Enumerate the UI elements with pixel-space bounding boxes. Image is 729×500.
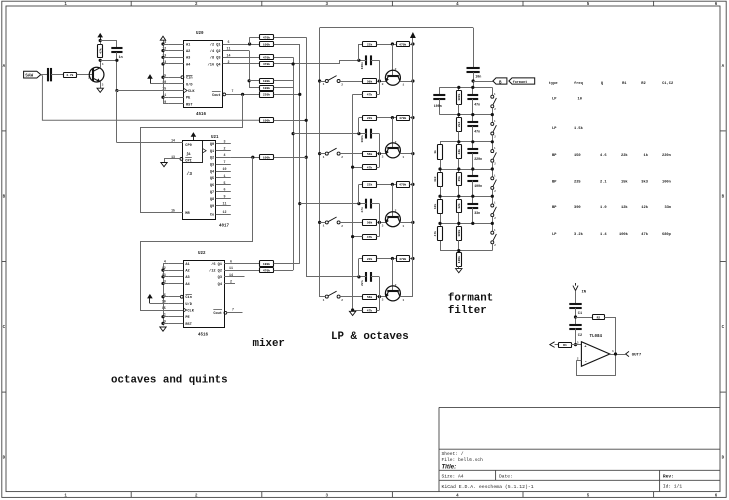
svg-text:A2: A2 <box>186 50 190 54</box>
svg-text:formant: formant <box>513 80 528 85</box>
svg-text:Cout: Cout <box>213 312 222 316</box>
wire <box>359 276 367 278</box>
junction <box>318 221 321 224</box>
wire <box>376 310 379 312</box>
svg-text:100n: 100n <box>434 104 442 108</box>
svg-text:100k: 100k <box>263 155 270 159</box>
wire base <box>392 184 394 217</box>
svg-text:C2: C2 <box>578 334 582 338</box>
switch SW4 <box>323 291 344 302</box>
svg-text:7: 7 <box>224 160 226 164</box>
svg-text:Id: 1/1: Id: 1/1 <box>663 484 683 490</box>
resistor 56k stage2 <box>363 152 377 157</box>
svg-text:1.4: 1.4 <box>600 233 607 237</box>
wire <box>163 316 168 318</box>
svg-text:/4 Q2: /4 Q2 <box>210 49 221 54</box>
svg-text:A3: A3 <box>185 276 189 280</box>
junction <box>318 152 321 155</box>
svg-text:12k: 12k <box>641 205 648 210</box>
node base stage1 <box>378 79 381 82</box>
wire feedback right <box>615 317 617 376</box>
power +V arrow U21 <box>193 136 195 140</box>
ground bus LP stages <box>352 94 354 310</box>
svg-text:15: 15 <box>171 208 175 212</box>
svg-text:10n: 10n <box>475 76 481 80</box>
pin 13 CPI U21 <box>169 155 183 160</box>
wire <box>274 37 307 39</box>
capacitor 10n <box>467 67 480 69</box>
pin 11 Q2 U22 <box>209 266 233 273</box>
resistor 100k U21 Q2 <box>260 155 274 160</box>
wire <box>274 87 294 89</box>
junction <box>292 62 295 65</box>
resistor 47k stage1 <box>363 92 377 98</box>
svg-text:A3: A3 <box>186 57 190 61</box>
wire <box>274 44 300 46</box>
svg-text:Q3: Q3 <box>218 276 222 280</box>
svg-text:Q5: Q5 <box>210 177 214 181</box>
pin 5 Cin U22 <box>164 293 192 300</box>
resistor 2k2 formant chain <box>457 115 462 142</box>
svg-text:22k: 22k <box>367 116 373 120</box>
svg-text:2: 2 <box>230 279 232 283</box>
wire to U21 CP0 <box>117 142 183 144</box>
svg-text:4516: 4516 <box>198 333 209 337</box>
svg-text:CPI: CPI <box>185 159 191 163</box>
capacitor 100n formant left <box>433 87 445 114</box>
node +in <box>574 343 577 346</box>
capacitor 22n stage4 <box>365 272 367 282</box>
wire stage3 feed <box>300 203 359 205</box>
capacitor 100n stage1 <box>365 55 367 65</box>
wire <box>100 41 102 45</box>
wire <box>575 291 577 305</box>
wire <box>555 344 559 346</box>
node C1/C2 <box>574 315 577 318</box>
wire <box>41 75 259 121</box>
svg-text:LP & octaves: LP & octaves <box>331 331 409 343</box>
wire -in <box>576 360 581 362</box>
wire <box>353 236 363 238</box>
capacitor C-in <box>47 68 49 81</box>
node collector stage4 <box>391 257 394 260</box>
svg-text:2: 2 <box>395 210 397 213</box>
wire <box>473 81 493 83</box>
wire <box>274 270 294 272</box>
svg-text:Q6: Q6 <box>210 184 214 188</box>
wire <box>100 40 117 42</box>
junction switch column <box>491 140 494 143</box>
wire <box>116 52 118 90</box>
junction <box>161 315 164 318</box>
transistor stage2 <box>382 141 405 159</box>
pin 3 A4 U20 <box>164 60 191 67</box>
pin 7 Cout U22 <box>213 307 242 316</box>
svg-text:LP: LP <box>552 127 557 131</box>
svg-text:Q1: Q1 <box>210 150 214 154</box>
transistor stage4 <box>382 284 405 302</box>
svg-text:470k: 470k <box>263 56 270 60</box>
wire <box>163 44 169 46</box>
resistor 100k formant bottom <box>457 251 462 269</box>
node cap stage3 <box>357 202 360 205</box>
wire node 4 <box>440 169 492 171</box>
svg-text:4516: 4516 <box>196 113 207 117</box>
svg-text:1: 1 <box>402 156 404 159</box>
pin 7 Cout U20 <box>212 89 234 98</box>
power +V arrow U/D U22 <box>149 298 151 304</box>
svg-text:1: 1 <box>402 83 404 86</box>
pin 1 PE U22 <box>164 313 191 320</box>
wire U22 Q4 stub <box>224 283 235 285</box>
svg-text:File: bell6.sch: File: bell6.sch <box>442 457 484 463</box>
svg-text:220n: 220n <box>474 157 482 161</box>
capacitor 33n formant <box>467 196 480 223</box>
power flag <box>160 36 165 40</box>
wire <box>340 81 362 83</box>
svg-text:47n: 47n <box>474 130 480 134</box>
resistor 56k stage1 <box>363 79 377 84</box>
svg-text:5: 5 <box>224 181 226 185</box>
junction chain <box>457 113 460 116</box>
power +V arrow rail <box>411 33 416 38</box>
node clk tap <box>115 89 118 92</box>
wire U20 Cout to U21 MR loop <box>141 94 243 212</box>
svg-text:470k: 470k <box>399 183 406 187</box>
bus B vertical <box>299 44 301 264</box>
svg-text:470k: 470k <box>263 268 270 272</box>
wire <box>359 117 363 119</box>
resistor 470k mixer <box>260 35 274 40</box>
svg-text:390: 390 <box>574 206 581 210</box>
wire U21 Q2 out <box>231 157 259 159</box>
output rail vertical <box>412 38 414 297</box>
pin 13 A3 U22 <box>162 273 190 280</box>
wire <box>274 157 307 159</box>
resistor 56k stage4 <box>363 295 377 300</box>
wire emitter out <box>400 296 413 298</box>
svg-text:47k: 47k <box>641 232 648 237</box>
wire <box>249 80 259 82</box>
svg-text:4: 4 <box>224 153 226 157</box>
resistor 15k formant chain <box>457 169 462 196</box>
junction <box>161 322 164 325</box>
svg-text:100n: 100n <box>361 135 364 142</box>
junction cap column <box>471 195 474 198</box>
svg-text:47k: 47k <box>367 235 373 239</box>
switch formant 3 <box>491 142 497 169</box>
wire <box>358 259 360 277</box>
wire <box>163 97 169 99</box>
svg-text:47n: 47n <box>474 102 480 106</box>
wire <box>575 308 577 325</box>
junction chain <box>457 140 460 143</box>
junction rail <box>411 257 414 260</box>
svg-text:U21: U21 <box>211 136 219 140</box>
pin 15 CLK U22 <box>162 306 195 313</box>
wire <box>100 60 117 62</box>
wire base <box>392 259 394 292</box>
power +V arrow <box>100 37 102 41</box>
junction <box>305 119 308 122</box>
junction <box>161 275 164 278</box>
svg-text:100k: 100k <box>457 93 461 100</box>
node cap stage4 <box>357 275 360 278</box>
svg-text:14: 14 <box>227 53 231 57</box>
svg-text:OUT7: OUT7 <box>632 354 642 358</box>
resistor 47k stage2 <box>363 165 377 170</box>
wire feedback bottom <box>576 375 615 377</box>
svg-text:/12 Q2: /12 Q2 <box>209 269 222 274</box>
wire base <box>392 44 394 76</box>
svg-text:filter: filter <box>448 305 487 317</box>
node 1n bottom <box>115 59 118 62</box>
svg-text:47k: 47k <box>367 308 373 312</box>
wire node 3 <box>440 141 492 143</box>
wire <box>371 60 380 62</box>
svg-text:BP: BP <box>552 180 557 184</box>
wire <box>377 184 396 186</box>
pin 11 Q9 U21 <box>210 202 231 209</box>
resistor 470k stage4 <box>397 256 410 262</box>
wire <box>410 44 413 46</box>
svg-text:Date:: Date: <box>499 474 513 480</box>
svg-text:2: 2 <box>395 68 397 71</box>
label formant filter <box>448 293 493 317</box>
wire <box>377 258 396 260</box>
switch formant 6 <box>491 223 497 250</box>
svg-text:1k: 1k <box>433 150 437 154</box>
svg-text:Co: Co <box>210 213 214 217</box>
wire <box>353 94 363 96</box>
resistor 47k stage3 <box>363 235 377 240</box>
bus D switch common <box>320 28 326 297</box>
junction Q2 <box>251 156 254 159</box>
svg-text:22k: 22k <box>457 149 461 155</box>
svg-text:10: 10 <box>223 167 227 171</box>
svg-text:470k: 470k <box>399 257 406 261</box>
svg-text:56k: 56k <box>367 79 373 83</box>
svg-text:Rev:: Rev: <box>663 474 674 480</box>
wire <box>358 184 360 203</box>
transistor stage1 <box>382 68 405 86</box>
resistor 470k stage2 <box>397 116 410 121</box>
junction Cout <box>241 93 244 96</box>
pin 9 RST U20 <box>164 100 193 107</box>
svg-text:1: 1 <box>323 225 325 228</box>
resistor 47k formant left <box>433 223 442 250</box>
svg-text:470k: 470k <box>399 116 406 120</box>
wire U22 Q2 out <box>224 270 259 272</box>
wire <box>377 81 386 83</box>
wire <box>249 37 251 44</box>
wire Q3 out <box>223 57 260 59</box>
wire <box>320 222 326 224</box>
resistor 470k stage3 <box>397 182 410 188</box>
switch SW1 <box>323 76 344 87</box>
wire <box>410 184 413 186</box>
pin 6 Q7 U21 <box>210 188 231 195</box>
junction switch column <box>491 222 494 225</box>
wire <box>51 74 63 76</box>
svg-text:15: 15 <box>162 87 166 91</box>
junction cap column <box>471 113 474 116</box>
svg-text:RST: RST <box>186 103 193 107</box>
wire <box>410 117 413 119</box>
wire stage1 feed <box>274 61 359 64</box>
svg-text:Cout: Cout <box>212 94 221 98</box>
wire <box>150 83 169 85</box>
junction switch column <box>491 167 494 170</box>
svg-text:220n: 220n <box>662 154 671 158</box>
svg-text:12k: 12k <box>457 203 461 209</box>
svg-text:9: 9 <box>224 195 226 199</box>
svg-text:Cin: Cin <box>186 76 192 81</box>
wire <box>163 276 168 278</box>
wire <box>274 263 300 265</box>
bus A vertical <box>293 57 295 270</box>
resistor 180k U22 Q1 <box>260 261 274 267</box>
svg-text:6: 6 <box>224 188 226 192</box>
junction chain <box>457 86 460 89</box>
resistor 12k formant chain <box>457 196 462 223</box>
svg-text:type: type <box>549 82 559 86</box>
wire node 6 <box>440 223 492 225</box>
svg-text:33n: 33n <box>474 211 480 215</box>
svg-text:14: 14 <box>171 139 175 143</box>
svg-text:Cin: Cin <box>185 295 191 300</box>
pin 9 Q8 U21 <box>210 195 231 202</box>
svg-text:4.6: 4.6 <box>600 154 607 158</box>
wire <box>377 44 396 46</box>
junction chain <box>457 167 460 170</box>
wire <box>359 258 363 260</box>
junction rail <box>411 221 414 224</box>
wire <box>163 283 168 285</box>
svg-text:22k: 22k <box>621 153 628 158</box>
hierarchical label SAW <box>24 71 41 78</box>
wire <box>116 41 118 49</box>
resistor 470k U22 Q2 <box>260 268 274 273</box>
wire <box>359 203 367 205</box>
wire base <box>392 118 394 149</box>
resistor 47k stage4 <box>363 308 377 313</box>
svg-text:100k: 100k <box>263 119 270 123</box>
wire <box>100 82 102 88</box>
wire U22 Q1 out <box>224 263 259 265</box>
svg-text:470k: 470k <box>263 62 270 66</box>
wire <box>376 236 379 238</box>
pin 13 A3 U20 <box>162 53 190 60</box>
wire Q2 out <box>223 50 249 52</box>
svg-text:freq: freq <box>574 81 583 86</box>
resistor 12k formant left <box>433 196 442 223</box>
svg-text:CLK: CLK <box>187 309 194 313</box>
pin 10 U/D U22 <box>162 299 193 306</box>
svg-text:6: 6 <box>228 40 230 44</box>
svg-text:SAW: SAW <box>25 74 33 79</box>
pin 14 Q3 U20 <box>210 53 231 60</box>
capacitor 220n formant <box>467 142 482 169</box>
svg-text:2: 2 <box>395 141 397 144</box>
wire <box>163 77 169 79</box>
svg-text:470k: 470k <box>263 36 270 40</box>
wire <box>371 203 380 205</box>
wire top rail to formant <box>320 27 474 29</box>
node collector <box>99 59 102 62</box>
pin 1 PE U20 <box>164 93 191 100</box>
svg-text:/6 Q1: /6 Q1 <box>211 262 222 267</box>
pin 4 A1 U20 <box>164 40 190 47</box>
wire stage2 feed <box>293 133 359 135</box>
svg-text:1.0: 1.0 <box>600 206 607 210</box>
svg-text:33n: 33n <box>665 206 672 210</box>
table formant parameters <box>549 81 673 237</box>
svg-text:5: 5 <box>164 73 166 77</box>
junction chain <box>457 222 460 225</box>
svg-text:3: 3 <box>224 139 226 143</box>
switch formant 4 <box>491 169 497 196</box>
node collector stage2 <box>391 116 394 119</box>
wire <box>100 60 102 67</box>
junction rail <box>411 79 414 82</box>
svg-text:R1: R1 <box>622 82 627 86</box>
svg-text:U/D: U/D <box>186 82 193 87</box>
svg-text:1: 1 <box>164 93 166 97</box>
svg-text:A1: A1 <box>185 263 189 267</box>
svg-text:1: 1 <box>102 63 104 66</box>
junction rail <box>411 152 414 155</box>
wire <box>359 184 363 186</box>
resistor 1k formant left <box>433 142 442 169</box>
wire <box>376 94 379 96</box>
junction <box>161 62 164 65</box>
wire <box>41 74 48 76</box>
svg-text:11: 11 <box>223 202 227 206</box>
svg-text:/8 Q3: /8 Q3 <box>210 56 221 61</box>
pin 4 A1 U22 <box>164 260 190 267</box>
svg-text:1: 1 <box>402 225 404 228</box>
wire Q1 out <box>223 44 260 46</box>
wire <box>353 310 363 312</box>
svg-text:15k: 15k <box>621 179 628 184</box>
wire <box>249 87 259 89</box>
svg-text:U22: U22 <box>198 252 206 256</box>
svg-text:4.7k: 4.7k <box>66 73 73 77</box>
svg-text:KiCad E.D.A. eeschema (5.1.12: KiCad E.D.A. eeschema (5.1.12)-1 <box>442 484 534 490</box>
svg-text:Q0: Q0 <box>210 143 214 147</box>
svg-text:2.1: 2.1 <box>600 180 607 184</box>
pin 15 CLK U20 <box>162 87 195 94</box>
svg-text:RST: RST <box>185 323 192 327</box>
junction <box>161 49 164 52</box>
resistor 22k stage2 <box>363 116 377 121</box>
resistor R1 <box>559 343 572 348</box>
svg-text:2: 2 <box>341 156 343 159</box>
svg-text:3.2k: 3.2k <box>574 232 584 237</box>
svg-text:100n: 100n <box>662 180 671 184</box>
pin 14 Q3 U22 <box>218 273 233 280</box>
capacitor C1 <box>569 304 582 316</box>
resistor 100k mixer <box>260 86 274 91</box>
node cap stage2 <box>357 132 360 135</box>
node cap stage1 <box>357 59 360 62</box>
resistor 100k formant chain <box>457 87 462 114</box>
wire cap/47k link <box>379 277 381 310</box>
svg-text:3: 3 <box>382 83 384 86</box>
capacitor 100n stage2 <box>365 129 367 139</box>
junction left column <box>438 222 441 225</box>
